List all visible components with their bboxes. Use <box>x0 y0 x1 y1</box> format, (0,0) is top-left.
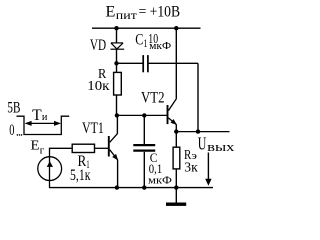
svg-text:0,1: 0,1 <box>149 161 162 176</box>
node emitter / C1 branch <box>196 129 200 133</box>
label Rэ <box>184 147 197 162</box>
svg-text:г: г <box>40 145 45 157</box>
svg-text:3к: 3к <box>184 160 198 175</box>
label Ег <box>31 139 45 157</box>
wire VD cathode to node <box>116 49 118 73</box>
svg-text:= +10В: = +10В <box>139 4 181 21</box>
wire R bottom to base node <box>116 95 118 115</box>
wire R1 left to corner <box>50 147 73 149</box>
output arrow Uвых <box>205 153 211 186</box>
svg-text:VT1: VT1 <box>82 120 104 137</box>
svg-text:и: и <box>42 111 48 123</box>
wire R1 to VT1 base <box>95 147 109 149</box>
wire through source <box>49 157 51 180</box>
label Ти <box>32 107 47 124</box>
svg-text:VD: VD <box>90 37 106 54</box>
source Ег circle <box>38 157 62 181</box>
dotted zero level <box>17 134 23 136</box>
ground stub <box>175 188 177 203</box>
node R / VT1 collector / VT2 base <box>115 113 119 117</box>
arrow inside source <box>47 161 53 167</box>
svg-text:5В: 5В <box>7 100 20 117</box>
wire corner down to source <box>49 148 51 157</box>
label Uвых <box>198 133 235 154</box>
transistor VT1 <box>109 133 118 160</box>
capacitor C <box>133 145 155 151</box>
wire VD anode <box>116 28 118 43</box>
wire C bottom stub <box>143 152 145 188</box>
node emitter / Rэ / output <box>174 129 178 133</box>
svg-text:0: 0 <box>9 122 14 139</box>
svg-text:Е: Е <box>31 139 40 154</box>
svg-text:1: 1 <box>143 36 147 50</box>
pulse width arrow Ти <box>25 121 61 126</box>
wire VT2 collector up to rail <box>175 28 177 98</box>
svg-text:5,1к: 5,1к <box>70 167 91 184</box>
svg-text:10к: 10к <box>87 78 110 93</box>
wire C top stub <box>143 115 145 144</box>
wire base node to VT2 base <box>117 114 167 116</box>
node capacitor C branch <box>142 113 146 117</box>
svg-text:мкФ: мкФ <box>148 175 172 186</box>
resistor Rэ <box>173 147 180 169</box>
wire emitter node to Rэ <box>175 132 177 148</box>
svg-text:пит: пит <box>116 10 137 22</box>
label R1 <box>78 153 90 171</box>
resistor R1 <box>72 144 94 152</box>
wire VT1 emitter down to ground rail <box>117 160 119 188</box>
capacitor C1 <box>143 55 148 72</box>
pulse waveform <box>17 116 70 134</box>
power rail +10V <box>92 27 201 29</box>
svg-text:мкФ: мкФ <box>149 41 171 52</box>
svg-text:C: C <box>135 31 143 48</box>
ground bar <box>166 203 186 206</box>
ground rail <box>49 187 213 189</box>
svg-text:U: U <box>198 133 207 153</box>
node C / rail <box>142 185 146 189</box>
svg-text:Т: Т <box>32 107 42 124</box>
wire Rэ bottom to ground rail <box>175 169 177 188</box>
diode VD <box>111 43 125 49</box>
svg-text:VT2: VT2 <box>141 89 165 106</box>
resistor R <box>114 72 122 95</box>
wire source bottom to rail <box>49 180 51 187</box>
wire VT1 collector up to base node <box>116 115 118 133</box>
transistor VT2 <box>168 98 177 125</box>
wire C1 branch down to emitter node <box>197 63 199 131</box>
node Rэ / rail <box>174 185 178 189</box>
node: rail / VT2 collector junction <box>174 26 178 30</box>
node VD / R / C1 <box>114 61 118 65</box>
svg-text:вых: вых <box>207 139 235 154</box>
node VT1 emitter / rail <box>115 185 119 189</box>
svg-text:Е: Е <box>106 4 116 21</box>
wire C1 right plate to corner <box>149 62 198 64</box>
node: rail / VD junction <box>114 26 118 30</box>
wire VT2 emitter down to node <box>175 125 177 132</box>
label Епит = +10В <box>106 4 181 22</box>
label C1 10 мкФ <box>135 31 171 52</box>
wire node to C1 left plate <box>117 62 143 64</box>
wire emitter output <box>176 131 229 133</box>
